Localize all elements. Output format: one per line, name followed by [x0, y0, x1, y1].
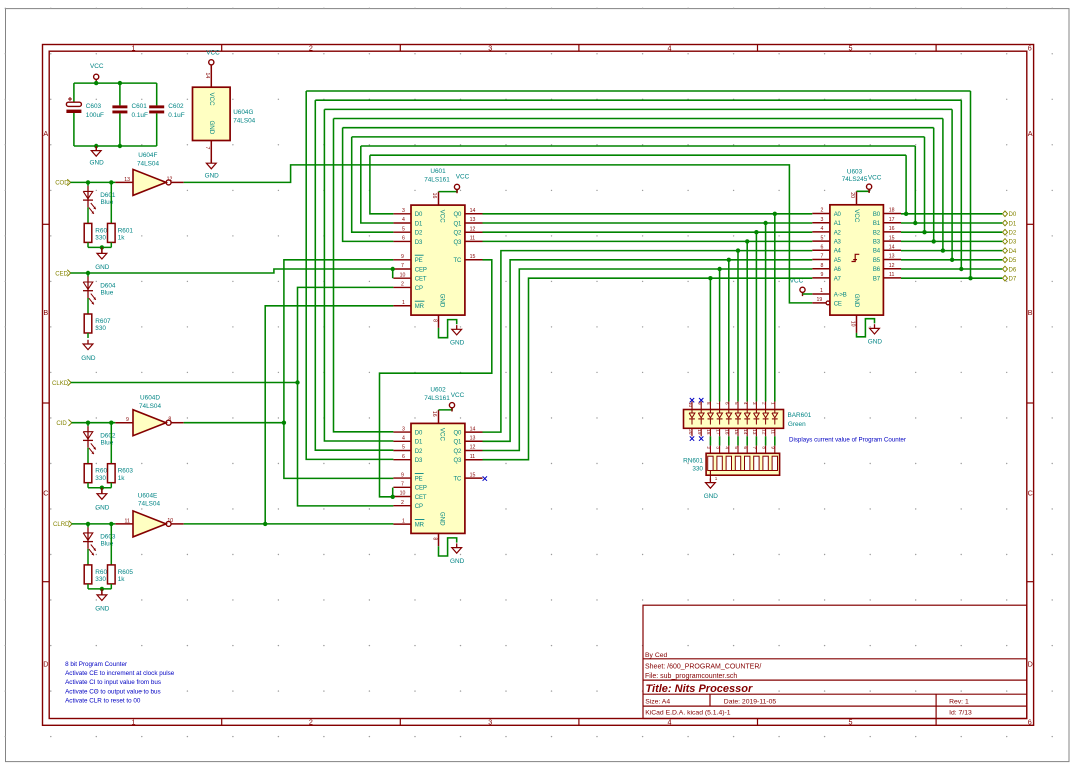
pin 7 anode of BAR601 [719, 402, 721, 410]
svg-text:7: 7 [401, 263, 404, 269]
IC U601 74LS161 binary counter [411, 205, 465, 315]
wire MR to U601 [265, 306, 393, 524]
wire top bus OD1 [361, 145, 916, 147]
svg-text:10: 10 [400, 272, 406, 278]
wire top bus OD4 [334, 118, 943, 120]
wire bargraph feed 1 [774, 214, 776, 402]
pin 3 D0 of U602 [393, 431, 411, 433]
junction bargraph tap A1 [763, 221, 767, 225]
pin 4 anode of BAR601 [746, 402, 748, 410]
svg-text:10: 10 [849, 321, 855, 327]
svg-text:A1: A1 [834, 221, 842, 227]
svg-text:7: 7 [715, 402, 720, 405]
pin 2 CP of U601 [393, 286, 411, 288]
junction VCC rail at C601 [118, 81, 122, 85]
svg-text:B4: B4 [873, 249, 881, 255]
ground symbol [101, 488, 103, 494]
svg-text:GND: GND [95, 264, 110, 271]
svg-text:1: 1 [132, 717, 136, 726]
LED D601 [87, 182, 89, 186]
svg-text:Rev: 1: Rev: 1 [949, 699, 969, 706]
svg-text:8: 8 [820, 263, 823, 269]
LED D604 [87, 273, 89, 277]
pin 15 cathode of BAR601 [737, 428, 739, 436]
wire CLRD to inverter [72, 523, 116, 525]
pin 4 D1 of U601 [393, 222, 411, 224]
pin 19 CE of U603 [812, 302, 826, 304]
svg-text:C: C [43, 489, 48, 498]
svg-text:VCC: VCC [208, 93, 215, 107]
svg-text:3: 3 [402, 208, 405, 214]
svg-text:5: 5 [734, 402, 739, 405]
svg-text:VCC: VCC [90, 63, 104, 70]
svg-text:Q1: Q1 [453, 221, 462, 227]
svg-text:Blue: Blue [101, 290, 114, 297]
svg-text:A: A [1028, 129, 1033, 138]
junction OD2 riser [922, 230, 926, 234]
svg-text:Activate CE to increment at cl: Activate CE to increment at clock pulse [65, 670, 175, 677]
wire top bus OD2 [352, 136, 925, 138]
pin 14 VCC of U604G [210, 65, 212, 87]
wire PE net from U604D [184, 422, 284, 424]
LED element 7 of BAR601 [719, 410, 721, 414]
pin 14 Q0 of U601 [465, 213, 483, 215]
svg-text:D5: D5 [1009, 257, 1017, 264]
wire OD6 riser to top bus [960, 100, 962, 269]
svg-text:KiCad E.D.A. kicad (5.1.4)-1: KiCad E.D.A. kicad (5.1.4)-1 [645, 710, 731, 717]
ground symbol of U602 [456, 543, 458, 547]
pin 5 D2 of U602 [393, 450, 411, 452]
junction COD at R601 [109, 180, 113, 184]
wire top bus OD6 [315, 99, 961, 101]
svg-text:GND: GND [868, 339, 883, 346]
wire COD to inverter [71, 181, 116, 183]
svg-text:Q1: Q1 [453, 440, 462, 446]
svg-text:6: 6 [402, 454, 405, 460]
svg-text:6: 6 [1028, 44, 1032, 53]
svg-text:MR: MR [415, 304, 425, 310]
svg-text:Q0: Q0 [453, 431, 462, 437]
svg-text:D3: D3 [415, 458, 423, 464]
no-connect BAR601 pin 10 [690, 398, 694, 402]
pin 17 B1 of U603 [883, 222, 901, 224]
svg-text:Green: Green [788, 421, 806, 428]
svg-text:D: D [1028, 660, 1033, 669]
pin 12 cathode of BAR601 [765, 428, 767, 436]
svg-text:R605: R605 [118, 569, 134, 576]
svg-text:19: 19 [817, 297, 823, 303]
pin 11 B7 of U603 [883, 277, 901, 279]
svg-text:A3: A3 [834, 240, 842, 246]
pin 10 of U604E [171, 523, 184, 525]
junction CLKD [295, 380, 299, 384]
svg-text:A0: A0 [834, 212, 842, 218]
svg-text:20: 20 [688, 429, 693, 435]
pin 1 common of RN601 [709, 471, 711, 481]
pin 16 B2 of U603 [883, 231, 901, 233]
pin 13 B5 of U603 [883, 259, 901, 261]
pin 6 A4 of U603 [812, 249, 830, 251]
wire OD5 drop to D input [324, 109, 393, 441]
pin 18 B0 of U603 [883, 213, 901, 215]
ground symbol of U601 [456, 325, 458, 329]
svg-text:D7: D7 [1009, 276, 1017, 283]
svg-text:VCC: VCC [439, 428, 446, 442]
pin 4 D1 of U602 [393, 440, 411, 442]
wire PE to U602 [284, 423, 394, 479]
svg-text:3: 3 [488, 44, 492, 53]
svg-text:PE: PE [415, 477, 423, 483]
wire OD6 drop to D input [315, 100, 393, 450]
wire bargraph cathode to RN601 pin 4 [728, 436, 730, 445]
svg-text:C603: C603 [86, 103, 102, 110]
svg-text:B7: B7 [873, 276, 881, 282]
svg-text:13: 13 [752, 429, 757, 435]
wire GND jog of U602 [439, 538, 457, 556]
capacitor C602 0.1uF [156, 83, 158, 105]
pin 11 Q3 of U602 [465, 459, 483, 461]
junction bargraph tap A7 [708, 276, 712, 280]
global label OD7 [1003, 275, 1008, 281]
svg-text:B2: B2 [873, 230, 881, 236]
junction GND rail at stem [94, 144, 98, 148]
svg-text:2: 2 [309, 44, 313, 53]
junction CLRD at D603 [86, 522, 90, 526]
LED element 3 of BAR601 [755, 410, 757, 414]
svg-text:1k: 1k [118, 576, 126, 583]
svg-text:D602: D602 [100, 432, 116, 439]
junction OD1 riser [913, 221, 917, 225]
pin 3 of RN601 [719, 446, 721, 454]
svg-text:1k: 1k [118, 475, 126, 482]
svg-text:16: 16 [431, 193, 437, 199]
wire GND rail bottom [74, 145, 157, 147]
pin 16 VCC of U601 [438, 192, 440, 206]
svg-text:13: 13 [889, 254, 895, 260]
svg-text:7: 7 [752, 446, 757, 449]
svg-text:14: 14 [204, 73, 210, 79]
ground symbol below U604G [210, 159, 212, 163]
svg-text:CET: CET [415, 495, 427, 501]
svg-text:D: D [43, 660, 48, 669]
wire top bus OD5 [324, 108, 952, 110]
global label OD6 [1003, 266, 1008, 272]
svg-text:15: 15 [470, 254, 476, 260]
svg-text:A6: A6 [834, 267, 842, 273]
svg-text:R603: R603 [118, 468, 134, 475]
svg-text:BAR601: BAR601 [788, 412, 812, 419]
wire B2 U603 to label OD2 [901, 231, 1002, 233]
pin 15 B3 of U603 [883, 240, 901, 242]
svg-text:2: 2 [820, 208, 823, 214]
pin 14 B4 of U603 [883, 249, 901, 251]
pin 4 of RN601 [728, 446, 730, 454]
resistor R605 1k [110, 524, 112, 565]
wire Q2 U602 to A6 U603 [483, 269, 813, 451]
svg-text:1: 1 [132, 44, 136, 53]
svg-text:12: 12 [470, 226, 476, 232]
wire Q1 U601 to A1 U603 [483, 222, 813, 224]
svg-text:74LS04: 74LS04 [139, 403, 161, 410]
pin 8 A6 of U603 [812, 268, 830, 270]
svg-text:9: 9 [771, 446, 776, 449]
svg-text:A2: A2 [834, 230, 842, 236]
junction OD3 riser [932, 239, 936, 243]
svg-text:Q3: Q3 [453, 240, 462, 246]
svg-text:GND: GND [704, 493, 719, 500]
resistor element 4 of RN601 [735, 456, 740, 470]
svg-text:7: 7 [204, 147, 210, 150]
svg-text:VCC: VCC [206, 50, 220, 57]
svg-text:3: 3 [715, 446, 720, 449]
svg-text:CLRD: CLRD [53, 521, 70, 528]
resistor element 5 of RN601 [745, 456, 750, 470]
LED element 9 of BAR601 [700, 410, 702, 414]
wire bargraph feed 3 [755, 232, 757, 401]
resistor element 3 of RN601 [726, 456, 731, 470]
svg-text:2: 2 [761, 402, 766, 405]
svg-text:9: 9 [401, 472, 404, 478]
svg-text:1k: 1k [118, 235, 126, 242]
svg-text:14: 14 [470, 208, 476, 214]
svg-text:RN601: RN601 [683, 458, 703, 465]
svg-text:2: 2 [401, 282, 404, 288]
svg-text:1: 1 [402, 300, 405, 306]
pin 12 B6 of U603 [883, 268, 901, 270]
svg-text:B6: B6 [873, 267, 881, 273]
svg-text:Id: 7/13: Id: 7/13 [949, 710, 972, 717]
junction CID at D602 [86, 421, 90, 425]
wire OD3 riser to top bus [933, 128, 935, 242]
svg-text:D601: D601 [100, 192, 116, 199]
wire bargraph feed 8 [709, 278, 711, 401]
svg-text:17: 17 [715, 429, 720, 435]
global label OD0 [1003, 211, 1008, 217]
wire top bus OD3 [343, 127, 934, 129]
pin 3 anode of BAR601 [755, 402, 757, 410]
wire bargraph feed 4 [746, 241, 748, 401]
pin 8 of U604D [171, 422, 184, 424]
svg-text:4: 4 [725, 446, 730, 449]
svg-text:Size: A4: Size: A4 [645, 699, 670, 706]
pin 9 PE of U602 [393, 477, 411, 479]
pin 7 CEP of U601 [393, 268, 411, 270]
svg-text:GND: GND [450, 340, 465, 347]
svg-text:0.1uF: 0.1uF [132, 112, 148, 119]
resistor element 1 of RN601 [708, 456, 713, 470]
svg-text:10: 10 [400, 491, 406, 497]
svg-text:R607: R607 [95, 318, 111, 325]
svg-text:74LS04: 74LS04 [137, 161, 159, 168]
svg-text:330: 330 [95, 235, 106, 242]
svg-text:U604G: U604G [233, 109, 253, 116]
svg-text:330: 330 [95, 576, 106, 583]
svg-text:14: 14 [889, 245, 895, 251]
wire Q2 U601 to A2 U603 [483, 231, 813, 233]
svg-text:D1: D1 [1009, 220, 1017, 227]
svg-text:20: 20 [849, 192, 855, 198]
wire OD7 riser to top bus [970, 91, 972, 278]
junction GND rail at C601 [118, 144, 122, 148]
svg-text:GND: GND [89, 160, 104, 167]
svg-text:GND: GND [438, 512, 445, 526]
wire Q3 U601 to A3 U603 [483, 240, 813, 242]
resistor R603 1k [110, 423, 112, 464]
wire B5 U603 to label OD5 [901, 259, 1002, 261]
pin 3 A1 of U603 [812, 222, 830, 224]
svg-text:10: 10 [688, 402, 693, 408]
inverter U604E 74LS04 [133, 511, 166, 537]
svg-text:U604D: U604D [140, 395, 160, 402]
svg-text:7: 7 [401, 482, 404, 488]
svg-text:10: 10 [167, 518, 173, 524]
junction at ground stem [100, 587, 104, 591]
svg-text:CP: CP [415, 286, 423, 292]
svg-text:D2: D2 [415, 449, 423, 455]
svg-text:2: 2 [309, 717, 313, 726]
wire OD1 riser to top bus [914, 146, 916, 223]
wire join to ground [88, 487, 111, 489]
svg-text:Activate CO to output value to: Activate CO to output value to bus [65, 688, 161, 695]
wire bargraph feed 6 [728, 260, 730, 402]
svg-text:D3: D3 [1009, 239, 1017, 246]
svg-text:GND: GND [95, 606, 110, 613]
svg-text:D3: D3 [415, 240, 423, 246]
svg-text:8: 8 [168, 417, 171, 423]
junction bargraph tap A5 [727, 258, 731, 262]
svg-text:74LS161: 74LS161 [424, 395, 450, 402]
svg-text:GND: GND [439, 294, 446, 308]
pin 8 of RN601 [765, 446, 767, 454]
svg-text:CID: CID [56, 420, 67, 427]
svg-text:TC: TC [453, 258, 462, 264]
LED element 6 of BAR601 [728, 410, 730, 414]
wire top bus OD7 [306, 90, 970, 92]
pin 1 anode of BAR601 [774, 402, 776, 410]
svg-text:15: 15 [734, 429, 739, 435]
wire bargraph cathode to RN601 pin 6 [746, 436, 748, 445]
svg-text:11: 11 [470, 236, 475, 242]
svg-text:U604F: U604F [138, 152, 157, 159]
power flag VCC (top-left) [94, 74, 99, 79]
svg-text:GND: GND [205, 172, 220, 179]
ground symbol of U603 [874, 324, 876, 328]
pin 12 Q2 of U602 [465, 450, 483, 452]
wire CLKD to U602 CP [298, 383, 394, 506]
junction OD0 riser [904, 212, 908, 216]
svg-text:1: 1 [715, 476, 718, 481]
wire PE to U601 [284, 260, 394, 423]
wire VCC rail top [74, 82, 157, 84]
pin 3 D0 of U601 [393, 213, 411, 215]
pin 14 Q0 of U602 [465, 431, 483, 433]
wire CLKD trunk [71, 382, 298, 384]
svg-text:Q2: Q2 [453, 231, 462, 237]
pin 6 D3 of U602 [393, 459, 411, 461]
wire CEP-CET tie of U602 [392, 488, 394, 497]
svg-text:B: B [1028, 308, 1033, 317]
junction bargraph tap A4 [736, 248, 740, 252]
wire B6 U603 to label OD6 [901, 268, 1002, 270]
svg-text:5: 5 [734, 446, 739, 449]
IC U604G 74LS04 power unit [193, 87, 231, 140]
wire B4 U603 to label OD4 [901, 250, 1002, 252]
wire MR net to U602 [184, 523, 394, 525]
svg-text:16: 16 [889, 226, 895, 232]
wire OD0 riser to top bus [905, 155, 907, 214]
LED element 8 of BAR601 [709, 410, 711, 414]
common rail of RN601 [710, 470, 774, 472]
pin 17 cathode of BAR601 [719, 428, 721, 436]
svg-text:C: C [1028, 489, 1033, 498]
junction MR net [263, 522, 267, 526]
pin 16 VCC of U602 [438, 410, 440, 424]
junction bargraph tap A3 [745, 239, 749, 243]
pin 6 of RN601 [746, 446, 748, 454]
junction at U601 CEP [391, 267, 395, 271]
inverter U604F 74LS04 [133, 169, 166, 195]
wire OD2 riser to top bus [924, 137, 926, 232]
capacitor C601 0.1uF [119, 83, 121, 105]
wire Q3 U602 to A7 U603 [483, 278, 813, 460]
svg-text:VCC: VCC [456, 174, 470, 181]
svg-text:MR: MR [415, 523, 425, 529]
svg-text:12: 12 [470, 445, 476, 451]
svg-text:4: 4 [820, 226, 823, 232]
pin 11 of U604E [115, 523, 133, 525]
wire bargraph cathode to RN601 pin 8 [765, 436, 767, 445]
pin 7 A5 of U603 [812, 259, 830, 261]
svg-text:Date: 2019-11-05: Date: 2019-11-05 [724, 699, 777, 706]
svg-text:7: 7 [820, 254, 823, 260]
wire OD0 drop to D input [370, 155, 394, 214]
pin 12 of U604F [171, 181, 184, 183]
svg-text:15: 15 [889, 235, 895, 241]
svg-text:19: 19 [697, 429, 702, 435]
wire CED to U601 CEP [71, 269, 393, 273]
pin 6 D3 of U601 [393, 240, 411, 242]
IC U602 74LS161 binary counter [411, 423, 465, 533]
svg-text:74LS245: 74LS245 [842, 176, 868, 183]
wire COD inverted to CE of U603 [184, 165, 813, 303]
pin 18 cathode of BAR601 [709, 428, 711, 436]
junction OD6 riser [959, 267, 963, 271]
pin 14 cathode of BAR601 [746, 428, 748, 436]
resistor element 7 of RN601 [763, 456, 768, 470]
pin 9 PE of U601 [393, 259, 411, 261]
svg-text:D1: D1 [415, 440, 423, 446]
wire VCC to A->B [803, 293, 813, 295]
svg-text:11: 11 [470, 454, 475, 460]
wire bargraph feed 2 [765, 223, 767, 402]
svg-text:11: 11 [889, 272, 894, 278]
svg-text:14: 14 [470, 426, 476, 432]
junction at ground stem [100, 245, 104, 249]
svg-text:Sheet: /600_PROGRAM_COUNTER/: Sheet: /600_PROGRAM_COUNTER/ [645, 664, 761, 671]
svg-text:R601: R601 [118, 227, 134, 234]
pin 11 Q3 of U601 [465, 240, 483, 242]
svg-text:D6: D6 [1009, 266, 1017, 273]
resistor network RN601 330 [706, 453, 780, 475]
pin 10 CET of U601 [393, 277, 411, 279]
junction at U602 CET [391, 495, 395, 499]
svg-text:D2: D2 [1009, 230, 1017, 237]
svg-text:By Ced: By Ced [645, 652, 668, 659]
svg-text:9: 9 [126, 417, 129, 423]
svg-text:3: 3 [752, 402, 757, 405]
junction OD4 riser [941, 248, 945, 252]
svg-text:13: 13 [124, 177, 130, 183]
